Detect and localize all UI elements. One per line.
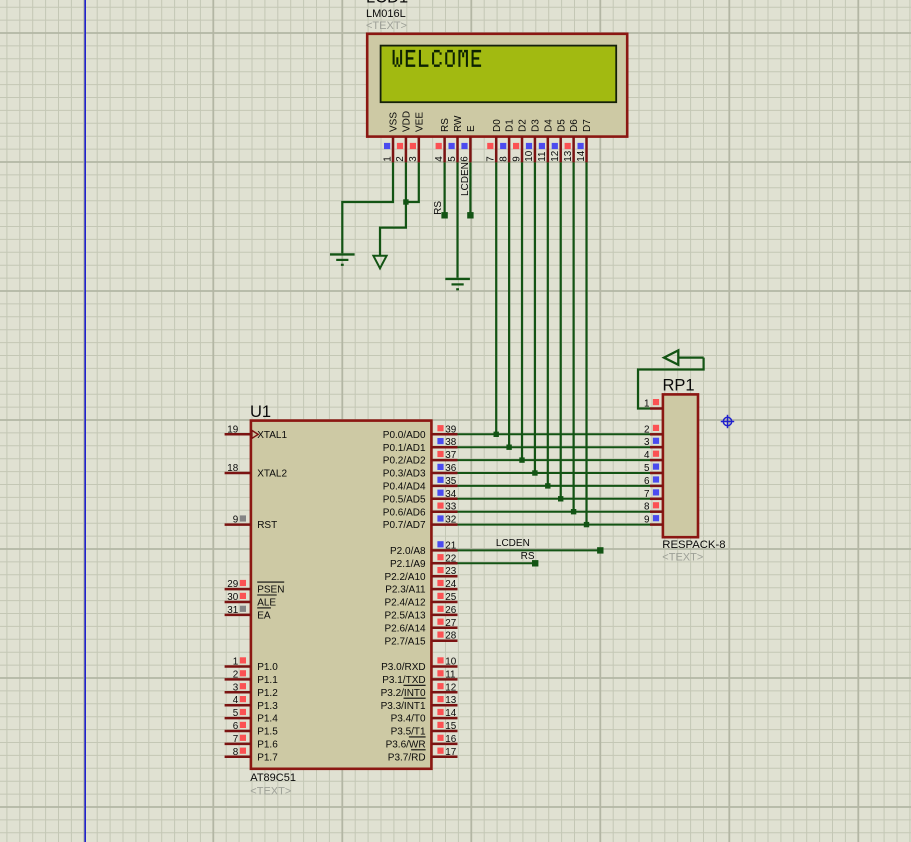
svg-text:6: 6 [460,156,471,162]
svg-text:P2.2/A10: P2.2/A10 [384,572,426,583]
svg-text:P2.5/A13: P2.5/A13 [384,611,426,622]
svg-text:P1.1: P1.1 [257,675,278,686]
svg-text:11: 11 [445,669,456,680]
overline INT0 [404,684,426,686]
resistor pack RP1 body [663,394,698,537]
svg-text:29: 29 [227,579,238,590]
LCD1 pin 4 (RS) [434,118,451,163]
U1 pin 4 (P1.3) [225,695,279,712]
U1 pin 16 (P3.6/WR) [386,734,458,751]
svg-text:1: 1 [382,156,393,162]
junction D6 [571,509,576,514]
svg-text:D4: D4 [543,119,554,132]
origin marker (blue crosshair) [721,415,734,428]
svg-text:P3.7/RD: P3.7/RD [388,752,426,763]
wire D0 (pin7) to P0.0 bus row [495,162,497,434]
svg-text:9: 9 [511,156,522,162]
svg-text:5: 5 [447,156,458,162]
svg-text:D6: D6 [569,119,580,132]
overline INT1 [404,697,426,699]
svg-text:D2: D2 [518,119,529,132]
svg-text:P1.0: P1.0 [257,662,278,673]
U1 pin 9 (RST) [225,515,278,532]
wire VDD (pin2) down to power triangle [380,162,406,255]
svg-text:8: 8 [233,747,239,758]
LCD1 pin 7 (D0) [486,119,503,163]
svg-text:<TEXT>: <TEXT> [366,20,407,32]
wire D2 (pin9) to P0.2 bus row [521,162,523,460]
svg-text:P1.5: P1.5 [257,727,278,738]
svg-text:9: 9 [644,515,650,526]
wire P0.4 to RP1 pin 6 [458,485,651,487]
wire P0.2 to RP1 pin 4 [458,459,651,461]
svg-text:RST: RST [257,520,277,531]
svg-text:5: 5 [644,463,650,474]
overline EA [257,607,271,609]
LCD1 pin 13 (D6) [563,119,580,163]
svg-text:P2.6/A14: P2.6/A14 [384,623,426,634]
junction D0 [494,432,499,437]
overline PSEN [257,581,284,583]
U1 pin 14 (P3.4/T0) [391,708,458,725]
U1 pin 27 (P2.6/A14) [384,618,457,635]
LCD1 pin 5 (RW) [447,115,464,162]
junction D5 [558,496,563,501]
U1 pin 22 (P2.1/A9) [390,553,457,570]
svg-text:6: 6 [644,476,650,487]
svg-text:P2.0/A8: P2.0/A8 [390,546,426,557]
wire D4 (pin11) to P0.4 bus row [547,162,549,486]
U1 pin 12 (P3.2/INT0) [381,682,458,699]
svg-text:35: 35 [445,476,456,487]
ground (RW) [445,279,470,289]
svg-text:RS: RS [433,201,444,215]
svg-text:P3.4/T0: P3.4/T0 [391,714,426,725]
svg-text:4: 4 [233,695,239,706]
junction D1 [506,445,511,450]
junction D2 [519,457,524,462]
wire P0.1 to RP1 pin 3 [458,446,651,448]
svg-text:4: 4 [644,450,650,461]
svg-text:5: 5 [233,708,239,719]
wire power to RP1 pin 1 [638,358,704,409]
U1 pin 6 (P1.5) [225,721,279,738]
svg-text:4: 4 [434,156,445,162]
U1 pin 28 (P2.7/A15) [384,631,457,648]
svg-text:P0.0/AD0: P0.0/AD0 [383,430,426,441]
svg-text:<TEXT>: <TEXT> [250,786,291,798]
svg-text:P0.4/AD4: P0.4/AD4 [383,482,426,493]
U1 pin 19 (XTAL1) [225,424,288,441]
svg-text:XTAL2: XTAL2 [257,469,287,480]
LCD text WELCOME [393,50,481,67]
svg-text:P1.2: P1.2 [257,688,278,699]
svg-text:18: 18 [227,463,238,474]
LCD1 pin 10 (D3) [524,119,541,163]
LCD1 pin 14 (D7) [576,119,593,163]
LCD1 pin 2 (VDD) [395,111,412,163]
svg-text:1: 1 [233,657,239,668]
wire E (pin6) to label terminal [469,162,471,215]
wire P2.1 (RS net) [458,562,536,564]
wire P0.7 to RP1 pin 9 [458,524,651,526]
svg-text:9: 9 [233,515,239,526]
sheet border (blue) [84,0,86,842]
svg-text:LM016L: LM016L [366,8,406,20]
wire VEE (pin3) joining VDD wire [406,162,419,202]
wire P0.6 to RP1 pin 8 [458,511,651,513]
svg-text:7: 7 [233,734,239,745]
svg-text:<TEXT>: <TEXT> [662,552,703,564]
U1 pin 3 (P1.2) [225,682,279,699]
junction D7 [584,522,589,527]
U1 pin 18 (XTAL2) [225,463,288,480]
RP1 pin 8 [644,502,663,513]
LCD LM016L body [367,34,627,137]
overline RD [411,749,426,751]
svg-text:D7: D7 [582,119,593,132]
svg-text:34: 34 [445,489,456,500]
svg-text:23: 23 [445,566,456,577]
svg-text:6: 6 [233,721,239,732]
wire D5 (pin12) to P0.5 bus row [560,162,562,498]
wire D6 (pin13) to P0.6 bus row [572,162,574,511]
svg-text:3: 3 [408,156,419,162]
svg-text:P2.4/A12: P2.4/A12 [384,598,426,609]
svg-text:VSS: VSS [389,112,400,132]
LCD1 pin 3 (VEE) [408,112,425,163]
svg-text:19: 19 [227,424,238,435]
svg-text:LCD1: LCD1 [366,0,408,7]
svg-text:21: 21 [445,540,456,551]
svg-text:P0.6/AD6: P0.6/AD6 [383,507,426,518]
overline WR [409,736,426,738]
svg-text:37: 37 [445,450,456,461]
svg-text:3: 3 [233,682,239,693]
svg-text:7: 7 [486,156,497,162]
U1 pin 26 (P2.5/A13) [384,605,457,622]
svg-text:27: 27 [445,618,456,629]
svg-text:38: 38 [445,437,456,448]
svg-text:32: 32 [445,515,456,526]
svg-text:26: 26 [445,605,456,616]
U1 pin 32 (P0.7/AD7) [383,515,458,532]
LCD1 pin 12 (D5) [550,119,567,163]
svg-text:AT89C51: AT89C51 [250,772,296,784]
svg-text:D3: D3 [531,119,542,132]
svg-text:E: E [466,125,477,132]
svg-text:P2.7/A15: P2.7/A15 [384,636,426,647]
svg-text:P2.3/A11: P2.3/A11 [385,585,426,596]
U1 pin 17 (P3.7/RD) [388,747,458,764]
svg-text:39: 39 [445,424,456,435]
svg-text:RESPACK-8: RESPACK-8 [662,539,725,551]
svg-text:EA: EA [257,611,271,622]
svg-text:VDD: VDD [402,111,413,132]
svg-text:2: 2 [233,669,239,680]
svg-text:25: 25 [445,592,456,603]
svg-text:RS: RS [521,551,535,562]
svg-text:13: 13 [563,150,574,161]
LCD screen [381,46,617,103]
U1 pin 37 (P0.2/AD2) [383,450,458,467]
U1 pin 7 (P1.6) [225,734,279,751]
wire D7 (pin14) to P0.7 bus row [585,162,587,524]
U1 pin 11 (P3.1/TXD) [382,669,457,686]
U1 pin 35 (P0.4/AD4) [383,476,458,493]
junction D4 [545,483,550,488]
svg-text:13: 13 [445,695,456,706]
U1 pin 23 (P2.2/A10) [384,566,457,583]
svg-text:ALE: ALE [257,598,276,609]
U1 pin 31 (EA) [225,605,271,622]
RP1 pin 1 [644,399,663,410]
U1 pin 10 (P3.0/RXD) [381,657,457,674]
svg-text:P1.3: P1.3 [257,701,278,712]
RP1 pin 4 [644,450,663,461]
svg-text:P3.6/WR: P3.6/WR [386,740,426,751]
overline ALE [257,594,277,596]
svg-text:LCDEN: LCDEN [496,538,530,549]
svg-text:D5: D5 [556,119,567,132]
U1 pin 13 (P3.3/INT1) [381,695,458,712]
LCD1 pin 6 (E) [460,125,477,162]
svg-text:LCDEN: LCDEN [460,162,471,196]
svg-text:P3.2/INT0: P3.2/INT0 [381,688,426,699]
U1 pin 25 (P2.4/A12) [384,592,457,609]
svg-text:RS: RS [440,118,451,132]
svg-text:30: 30 [227,592,238,603]
LCD1 pin 1 (VSS) [382,112,399,163]
wire RW (pin5) to ground [456,162,458,277]
svg-text:12: 12 [550,151,561,162]
svg-text:RW: RW [453,115,464,132]
wire VSS (pin1) to ground [342,162,393,253]
svg-text:P3.1/TXD: P3.1/TXD [382,675,425,686]
LCD1 pin 11 (D4) [537,119,554,163]
svg-text:P1.7: P1.7 [257,752,278,763]
svg-text:P3.5/T1: P3.5/T1 [391,727,426,738]
svg-text:14: 14 [445,708,456,719]
svg-text:VEE: VEE [414,112,425,132]
LCD1 pin 9 (D2) [511,119,528,163]
svg-text:8: 8 [644,502,650,513]
svg-text:P0.1/AD1: P0.1/AD1 [383,443,426,454]
power terminal triangle (VDD) [373,256,386,268]
svg-text:RP1: RP1 [663,377,695,395]
U1 pin 24 (P2.3/A11) [385,579,457,596]
svg-text:14: 14 [576,150,587,161]
U1 pin 29 (PSEN) [225,579,285,596]
U1 pin 21 (P2.0/A8) [390,540,457,557]
U1 pin 8 (P1.7) [225,747,279,764]
svg-text:16: 16 [445,734,456,745]
svg-text:15: 15 [445,721,456,732]
svg-text:3: 3 [644,437,650,448]
wire P0.3 to RP1 pin 5 [458,472,651,474]
svg-text:17: 17 [445,747,456,758]
wire P0.5 to RP1 pin 7 [458,498,651,500]
svg-text:28: 28 [445,631,456,642]
svg-text:P0.2/AD2: P0.2/AD2 [383,456,426,467]
svg-text:24: 24 [445,579,456,590]
svg-text:P0.5/AD5: P0.5/AD5 [383,494,426,505]
svg-text:11: 11 [537,151,548,162]
svg-text:7: 7 [644,489,650,500]
junction D3 [532,470,537,475]
svg-text:XTAL1: XTAL1 [257,430,287,441]
wire D1 (pin8) to P0.1 bus row [508,162,510,447]
RP1 pin 5 [644,463,663,474]
wire P0.0 to RP1 pin 2 [458,433,651,435]
ground (VSS) [330,254,355,264]
svg-text:10: 10 [524,150,535,161]
svg-text:31: 31 [227,605,238,616]
svg-text:P3.0/RXD: P3.0/RXD [381,662,425,673]
svg-text:2: 2 [395,156,406,162]
wire D3 (pin10) to P0.3 bus row [534,162,536,473]
svg-text:PSEN: PSEN [257,585,284,596]
svg-text:2: 2 [644,424,650,435]
svg-text:D0: D0 [492,119,503,132]
svg-text:33: 33 [445,502,456,513]
U1 pin 33 (P0.6/AD6) [383,502,458,519]
svg-text:22: 22 [445,553,456,564]
svg-text:P1.4: P1.4 [257,714,278,725]
svg-text:10: 10 [445,657,456,668]
RP1 pin 3 [644,437,663,448]
svg-text:P1.6: P1.6 [257,740,278,751]
junction VEE/VDD [403,199,408,204]
MCU U1 body [251,421,432,769]
svg-text:P0.7/AD7: P0.7/AD7 [383,520,426,531]
U1 XTAL1 clock input marker [252,430,258,438]
svg-text:12: 12 [445,682,456,693]
power symbol (left arrow) [664,350,704,364]
LCD1 pin 8 (D1) [498,119,515,163]
svg-text:U1: U1 [250,403,271,421]
svg-text:P0.3/AD3: P0.3/AD3 [383,469,426,480]
RP1 pin 9 [644,515,663,526]
U1 pin 15 (P3.5/T1) [391,721,458,738]
wire RS (pin4) to label terminal [444,162,446,215]
U1 pin 39 (P0.0/AD0) [383,424,458,441]
U1 pin 5 (P1.4) [225,708,279,725]
svg-text:D1: D1 [505,119,516,132]
RP1 pin 6 [644,476,663,487]
U1 pin 2 (P1.1) [225,669,279,686]
U1 pin 34 (P0.5/AD5) [383,489,458,506]
RP1 pin 2 [644,424,663,435]
U1 pin 38 (P0.1/AD1) [383,437,458,454]
svg-text:8: 8 [498,156,509,162]
U1 pin 1 (P1.0) [225,657,279,674]
svg-text:36: 36 [445,463,456,474]
U1 pin 36 (P0.3/AD3) [383,463,458,480]
RP1 pin 7 [644,489,663,500]
svg-text:P3.3/INT1: P3.3/INT1 [381,701,426,712]
svg-text:P2.1/A9: P2.1/A9 [390,559,426,570]
wire P2.0 (LCDEN net) [458,549,601,551]
U1 pin 30 (ALE) [225,592,277,609]
